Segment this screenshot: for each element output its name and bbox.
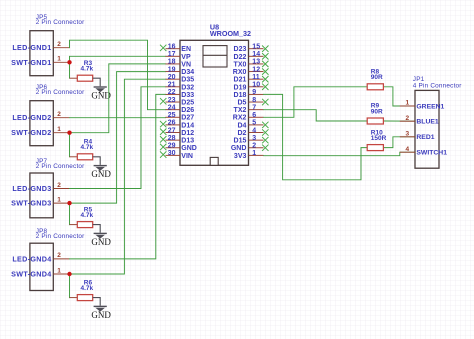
R4 left lead bbox=[70, 156, 78, 158]
svg-text:1: 1 bbox=[57, 267, 61, 274]
JP8 pin 2 stub bbox=[53, 258, 69, 260]
svg-text:D12: D12 bbox=[181, 130, 194, 137]
no-connect X on U8 pin 27 bbox=[160, 129, 166, 135]
no-connect X on U8 pin 15 bbox=[262, 46, 268, 52]
svg-text:TX2: TX2 bbox=[234, 107, 247, 114]
svg-text:21: 21 bbox=[168, 82, 176, 89]
svg-text:GND: GND bbox=[91, 169, 111, 179]
svg-text:4: 4 bbox=[252, 127, 256, 134]
svg-text:3: 3 bbox=[405, 131, 409, 138]
svg-text:6: 6 bbox=[252, 112, 256, 119]
svg-text:2: 2 bbox=[57, 41, 61, 48]
svg-text:RX2: RX2 bbox=[233, 115, 247, 122]
no-connect X on U8 pin 10 bbox=[262, 84, 268, 90]
svg-text:D2: D2 bbox=[237, 130, 246, 137]
svg-text:150R: 150R bbox=[371, 135, 387, 142]
svg-text:GND: GND bbox=[91, 310, 111, 320]
svg-text:4.7k: 4.7k bbox=[81, 66, 94, 73]
JP1 pin 2 stub bbox=[400, 120, 415, 122]
U8 pin 13 (TX0) stub bbox=[249, 63, 264, 65]
wire SWT-GND4 junction to R6 bbox=[69, 274, 71, 298]
connector JP8 (2 Pin Connector) bbox=[30, 228, 85, 290]
svg-text:22: 22 bbox=[168, 89, 176, 96]
JP1 pin 1 stub bbox=[400, 105, 415, 107]
svg-text:1: 1 bbox=[57, 56, 61, 63]
connector JP6 (2 Pin Connector) bbox=[30, 84, 85, 146]
R6 left lead bbox=[70, 297, 78, 299]
U8 pin 16 (EN) stub bbox=[166, 48, 181, 50]
svg-text:D34: D34 bbox=[181, 69, 194, 76]
no-connect X on U8 pin 26 bbox=[160, 121, 166, 127]
svg-text:SWT-GND2: SWT-GND2 bbox=[11, 128, 51, 137]
wire net LED-GND4 : JP8 pin2 to U8 D33 bbox=[70, 94, 166, 259]
U8 pin 6 (RX2) stub bbox=[249, 116, 264, 118]
wire SWT-GND1 junction to R3 bbox=[69, 62, 71, 78]
svg-text:3V3: 3V3 bbox=[234, 153, 247, 160]
svg-text:3: 3 bbox=[252, 135, 256, 142]
no-connect X on U8 pin 14 bbox=[262, 53, 268, 59]
U8 pin 14 (D22) stub bbox=[249, 55, 264, 57]
svg-text:D23: D23 bbox=[234, 46, 247, 53]
connector JP5 (2 Pin Connector) bbox=[30, 14, 85, 75]
svg-text:14: 14 bbox=[252, 51, 260, 58]
wire net SWT-GND1 : JP5 pin1 to U8 VP bbox=[70, 56, 166, 62]
U8 pin 25 (D27) stub bbox=[166, 116, 181, 118]
no-connect X on U8 pin 8 bbox=[262, 99, 268, 105]
svg-text:25: 25 bbox=[168, 112, 176, 119]
wire SWT-GND3 junction to R5 bbox=[69, 203, 71, 225]
wire net TX2 : U8 pin7 to R9 bbox=[264, 110, 368, 121]
U8 pin 30 (VIN) stub bbox=[166, 154, 181, 156]
no-connect X on U8 pin 29 bbox=[160, 144, 166, 150]
JP8 pin 1 stub bbox=[53, 273, 69, 275]
svg-text:SWITCH1: SWITCH1 bbox=[416, 150, 447, 157]
connector JP1 (4 Pin Connector) bbox=[413, 76, 462, 168]
svg-text:19: 19 bbox=[168, 66, 176, 73]
svg-text:29: 29 bbox=[168, 143, 176, 150]
resistor R4 value 4.7k bbox=[77, 154, 92, 160]
svg-text:26: 26 bbox=[168, 120, 176, 127]
U8 pin 24 (D26) stub bbox=[166, 109, 181, 111]
ground for R3 symbol bbox=[94, 86, 107, 92]
svg-text:D15: D15 bbox=[234, 138, 247, 145]
svg-text:2 Pin Connector: 2 Pin Connector bbox=[36, 233, 85, 240]
U8 pin 23 (D25) stub bbox=[166, 101, 181, 103]
svg-text:D25: D25 bbox=[181, 100, 194, 107]
svg-text:24: 24 bbox=[168, 104, 176, 111]
svg-text:2: 2 bbox=[405, 115, 409, 122]
svg-text:RED1: RED1 bbox=[416, 134, 434, 141]
U8 pin 3 (D15) stub bbox=[249, 139, 264, 141]
R5 right lead bbox=[93, 225, 101, 233]
svg-text:GREEN1: GREEN1 bbox=[416, 103, 444, 110]
resistor R9 value 90R bbox=[367, 118, 383, 124]
wire net SWT-GND3 : JP7 pin1 to U8 D34 bbox=[70, 72, 166, 204]
svg-text:D27: D27 bbox=[181, 115, 194, 122]
U8 pin 8 (D5) stub bbox=[249, 101, 264, 103]
R4 right lead bbox=[93, 157, 101, 165]
svg-text:13: 13 bbox=[252, 59, 260, 66]
svg-text:SWT-GND4: SWT-GND4 bbox=[11, 270, 51, 279]
U8 pin 12 (RX0) stub bbox=[249, 71, 264, 73]
JP6 pin 1 stub bbox=[53, 132, 69, 134]
U8 pin 11 (D21) stub bbox=[249, 78, 264, 80]
U8 pin 7 (TX2) stub bbox=[249, 109, 264, 111]
JP7 pin 1 stub bbox=[53, 202, 69, 204]
svg-text:GND: GND bbox=[231, 145, 247, 152]
svg-text:SWT-GND1: SWT-GND1 bbox=[11, 58, 51, 67]
U8 pin 20 (D35) stub bbox=[166, 78, 181, 80]
svg-text:1: 1 bbox=[405, 100, 409, 107]
svg-text:GND: GND bbox=[181, 145, 197, 152]
svg-text:1: 1 bbox=[252, 150, 256, 157]
resistor R8 value 90R bbox=[367, 84, 383, 90]
no-connect X on U8 pin 5 bbox=[262, 122, 268, 128]
svg-text:LED-GND3: LED-GND3 bbox=[12, 184, 51, 193]
svg-text:D5: D5 bbox=[237, 100, 246, 107]
svg-text:D26: D26 bbox=[181, 107, 194, 114]
no-connect X on U8 pin 11 bbox=[262, 76, 268, 82]
svg-text:2 Pin Connector: 2 Pin Connector bbox=[36, 19, 85, 26]
junction node SWT-GND4 bbox=[67, 272, 71, 276]
svg-text:D19: D19 bbox=[234, 84, 247, 91]
U8 pin 28 (D13) stub bbox=[166, 139, 181, 141]
svg-text:4.7k: 4.7k bbox=[81, 144, 94, 151]
svg-text:11: 11 bbox=[252, 74, 260, 81]
svg-text:30: 30 bbox=[168, 150, 176, 157]
svg-text:8: 8 bbox=[252, 97, 256, 104]
no-connect X on U8 pin 30 bbox=[160, 151, 166, 157]
svg-text:18: 18 bbox=[168, 59, 176, 66]
JP1 pin 3 stub bbox=[400, 136, 415, 138]
no-connect X on U8 pin 16 bbox=[160, 45, 166, 51]
svg-text:28: 28 bbox=[168, 135, 176, 142]
resistor R10 value 150R bbox=[367, 145, 383, 151]
U8 pin 19 (D34) stub bbox=[166, 71, 181, 73]
svg-text:D18: D18 bbox=[234, 92, 247, 99]
resistor R6 value 4.7k bbox=[77, 295, 92, 301]
U8 pin 26 (D14) stub bbox=[166, 124, 181, 126]
wire net D18 : U8 pin9 to R10 bbox=[264, 94, 368, 179]
wire R9 to JP1 BLUE1 bbox=[384, 120, 415, 122]
no-connect X on U8 pin 23 bbox=[160, 98, 166, 104]
JP5 pin 1 stub bbox=[53, 61, 69, 63]
wire R10 to JP1 RED1 bbox=[384, 137, 415, 148]
junction node SWT-GND2 bbox=[67, 131, 71, 135]
U8 pin 4 (D2) stub bbox=[249, 132, 264, 134]
svg-text:2: 2 bbox=[57, 111, 61, 118]
svg-text:LED-GND1: LED-GND1 bbox=[12, 43, 51, 52]
wire net SWT-GND4 : JP8 pin1 to U8 D35 bbox=[70, 79, 166, 274]
svg-text:2: 2 bbox=[57, 182, 61, 189]
wire net RX2 : U8 pin6 to R8 bbox=[264, 87, 368, 118]
IC U8 (WROOM_32 module) body bbox=[180, 40, 249, 165]
U8 pin 9 (D18) stub bbox=[249, 93, 264, 95]
svg-text:D35: D35 bbox=[181, 77, 194, 84]
JP1 pin 4 stub bbox=[400, 151, 415, 153]
U8 pin 5 (D4) stub bbox=[249, 124, 264, 126]
U8 pin 22 (D33) stub bbox=[166, 93, 181, 95]
resistor R3 value 4.7k bbox=[77, 75, 92, 81]
U8 pin 18 (VN) stub bbox=[166, 63, 181, 65]
svg-text:SWT-GND3: SWT-GND3 bbox=[11, 199, 51, 208]
wire R8 to JP1 GREEN1 bbox=[384, 87, 415, 106]
svg-text:WROOM_32: WROOM_32 bbox=[210, 29, 251, 38]
junction node SWT-GND3 bbox=[67, 201, 71, 205]
svg-text:20: 20 bbox=[168, 74, 176, 81]
svg-text:VIN: VIN bbox=[181, 153, 193, 160]
svg-text:1: 1 bbox=[57, 196, 61, 203]
svg-text:4.7k: 4.7k bbox=[81, 212, 94, 219]
svg-text:9: 9 bbox=[252, 89, 256, 96]
R5 left lead bbox=[70, 224, 78, 226]
svg-text:LED-GND2: LED-GND2 bbox=[12, 113, 51, 122]
wire net SWT-GND2 : JP6 pin1 to U8 VN bbox=[70, 64, 166, 133]
ground for R4 symbol bbox=[94, 165, 107, 171]
svg-text:LED-GND4: LED-GND4 bbox=[12, 254, 51, 263]
wire SWT-GND2 junction to R4 bbox=[69, 133, 71, 157]
U8 pin 15 (D23) stub bbox=[249, 48, 264, 50]
resistor R5 value 4.7k bbox=[77, 222, 92, 228]
svg-text:7: 7 bbox=[252, 104, 256, 111]
wire net LED-GND2 : JP6 pin2 to U8 D27 bbox=[70, 117, 166, 119]
svg-text:27: 27 bbox=[168, 127, 176, 134]
svg-text:4: 4 bbox=[405, 146, 409, 153]
svg-text:90R: 90R bbox=[371, 74, 383, 81]
ground for R5 symbol bbox=[94, 233, 107, 239]
svg-text:2: 2 bbox=[252, 143, 256, 150]
no-connect X on U8 pin 12 bbox=[262, 68, 268, 74]
R3 left lead bbox=[70, 77, 78, 79]
svg-text:GND: GND bbox=[91, 237, 111, 247]
svg-text:TX0: TX0 bbox=[234, 61, 247, 68]
svg-text:D14: D14 bbox=[181, 122, 194, 129]
wire net LED-GND1 : JP5 pin2 to U8 D26 bbox=[70, 40, 166, 110]
U8 pin 27 (D12) stub bbox=[166, 132, 181, 134]
svg-text:EN: EN bbox=[181, 46, 191, 53]
U8 pin 17 (VP) stub bbox=[166, 55, 181, 57]
ground for R6 symbol bbox=[94, 306, 107, 312]
no-connect X on U8 pin 3 bbox=[262, 137, 268, 143]
wire net 3V3 : U8 pin1 to JP1 SWITCH1 bbox=[264, 152, 416, 156]
svg-text:4.7k: 4.7k bbox=[81, 285, 94, 292]
svg-text:D4: D4 bbox=[237, 122, 246, 129]
no-connect X on U8 pin 4 bbox=[262, 129, 268, 135]
U8 pin 10 (D19) stub bbox=[249, 86, 264, 88]
R3 right lead bbox=[93, 78, 101, 86]
wire net LED-GND3 : JP7 pin2 to U8 D32 bbox=[70, 87, 166, 189]
svg-text:VP: VP bbox=[181, 54, 191, 61]
svg-text:4 Pin Connector: 4 Pin Connector bbox=[413, 82, 462, 89]
svg-text:12: 12 bbox=[252, 66, 260, 73]
svg-text:10: 10 bbox=[252, 82, 260, 89]
svg-text:2: 2 bbox=[57, 252, 61, 259]
svg-text:17: 17 bbox=[168, 51, 176, 58]
svg-text:15: 15 bbox=[252, 44, 260, 51]
U8 pin 2 (GND) stub bbox=[249, 147, 264, 149]
U8 pin 1 (3V3) stub bbox=[249, 154, 264, 156]
no-connect X on U8 pin 2 bbox=[262, 145, 268, 151]
U8 bottom notch bbox=[210, 157, 218, 165]
svg-text:D33: D33 bbox=[181, 92, 194, 99]
JP5 pin 2 stub bbox=[53, 47, 69, 49]
svg-text:16: 16 bbox=[168, 44, 176, 51]
svg-text:D22: D22 bbox=[234, 54, 247, 61]
JP6 pin 2 stub bbox=[53, 117, 69, 119]
svg-text:D13: D13 bbox=[181, 138, 194, 145]
U8 antenna symbol drawing bbox=[203, 46, 227, 67]
svg-text:D21: D21 bbox=[234, 77, 247, 84]
U8 pin 29 (GND) stub bbox=[166, 147, 181, 149]
connector JP7 (2 Pin Connector) bbox=[30, 158, 85, 218]
svg-text:5: 5 bbox=[252, 120, 256, 127]
svg-text:90R: 90R bbox=[371, 108, 383, 115]
U8 pin 21 (D32) stub bbox=[166, 86, 181, 88]
svg-text:VN: VN bbox=[181, 61, 191, 68]
junction node SWT-GND1 bbox=[67, 60, 71, 64]
svg-text:23: 23 bbox=[168, 97, 176, 104]
svg-text:2 Pin Connector: 2 Pin Connector bbox=[36, 89, 85, 96]
svg-text:1: 1 bbox=[57, 126, 61, 133]
svg-text:BLUE1: BLUE1 bbox=[416, 119, 439, 126]
no-connect X on U8 pin 13 bbox=[262, 61, 268, 67]
no-connect X on U8 pin 28 bbox=[160, 136, 166, 142]
svg-text:D32: D32 bbox=[181, 84, 194, 91]
svg-text:2 Pin Connector: 2 Pin Connector bbox=[36, 163, 85, 170]
JP7 pin 2 stub bbox=[53, 188, 69, 190]
svg-text:RX0: RX0 bbox=[233, 69, 247, 76]
R6 right lead bbox=[93, 298, 101, 306]
